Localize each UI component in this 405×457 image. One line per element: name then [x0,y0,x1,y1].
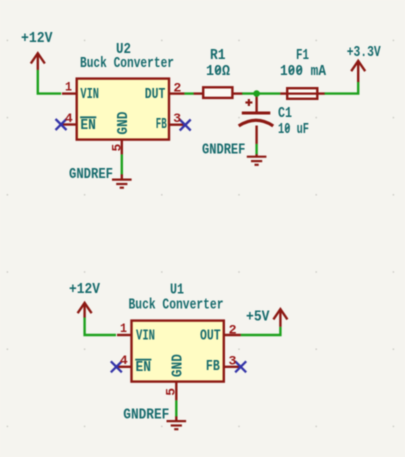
svg-text:+12V: +12V [69,281,100,298]
svg-text:VIN: VIN [80,86,99,103]
svg-text:+5V: +5V [246,309,270,326]
svg-text:FB: FB [206,358,220,375]
svg-text:FB: FB [156,116,167,133]
svg-text:10Ω: 10Ω [206,63,230,80]
svg-text:F1: F1 [296,47,309,64]
svg-text:1: 1 [120,321,127,336]
svg-text:OUT: OUT [200,327,221,344]
svg-text:100 mA: 100 mA [280,63,326,80]
svg-text:EN: EN [136,359,152,376]
svg-text:2: 2 [229,323,237,338]
svg-text:EN: EN [80,117,96,134]
svg-text:VIN: VIN [136,328,155,345]
svg-text:1: 1 [65,80,72,95]
svg-text:GNDREF: GNDREF [202,142,245,159]
svg-text:4: 4 [65,111,73,126]
svg-text:DUT: DUT [145,86,166,103]
svg-text:5: 5 [110,144,125,152]
svg-text:Buck Converter: Buck Converter [80,55,174,72]
svg-text:GND: GND [169,354,186,377]
svg-text:GNDREF: GNDREF [123,407,169,424]
svg-text:+12V: +12V [21,30,53,47]
svg-text:GND: GND [115,112,132,135]
svg-text:Buck Converter: Buck Converter [129,297,224,314]
svg-text:10 uF: 10 uF [278,121,309,138]
svg-text:GNDREF: GNDREF [69,166,113,183]
svg-text:3: 3 [229,353,237,368]
svg-text:+3.3V: +3.3V [347,44,381,61]
svg-text:C1: C1 [278,105,292,122]
svg-text:2: 2 [173,81,181,96]
svg-text:3: 3 [173,111,181,126]
svg-text:R1: R1 [210,47,226,64]
svg-text:5: 5 [163,388,178,396]
svg-text:4: 4 [120,353,128,368]
